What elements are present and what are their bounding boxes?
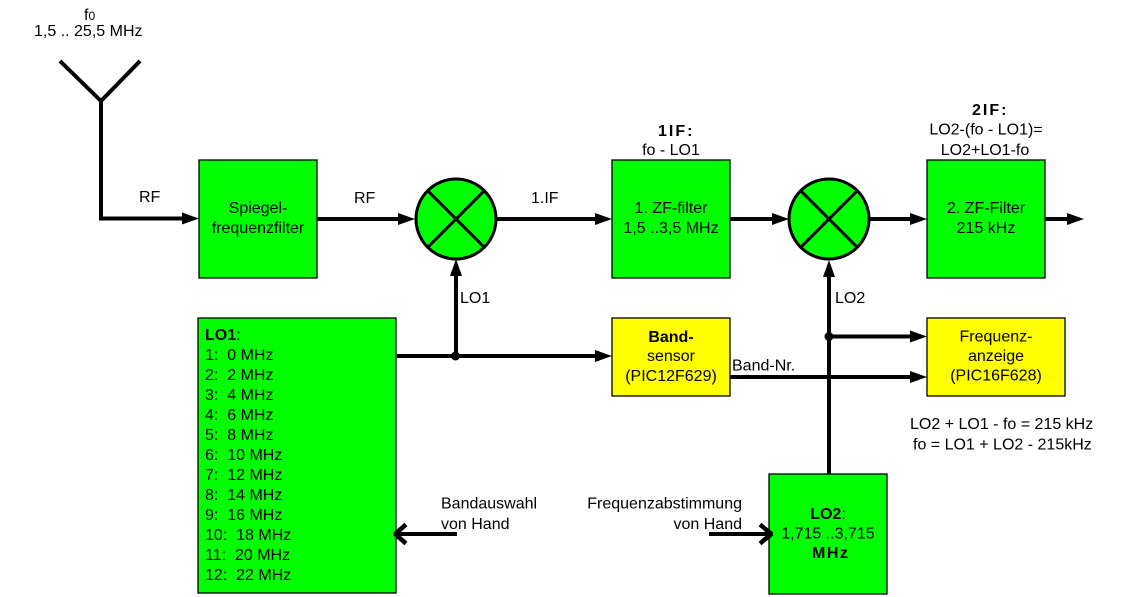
svg-text:1. ZF-filter: 1. ZF-filter (635, 200, 709, 217)
svg-text:LO1: LO1 (460, 290, 490, 307)
svg-text:4: 6 MHz: 4: 6 MHz (205, 407, 273, 424)
svg-text:9: 16 MHz: 9: 16 MHz (205, 507, 282, 524)
svg-text:Bandauswahl: Bandauswahl (441, 496, 537, 513)
wire mixer1 to ZF-filter1 (496, 213, 612, 225)
svg-text:1: 0 MHz: 1: 0 MHz (205, 347, 273, 364)
svg-text:sensor: sensor (647, 348, 696, 365)
sensor Band-sensor (612, 318, 730, 396)
svg-text:Spiegel-: Spiegel- (229, 200, 288, 217)
oscillator LO1 (198, 318, 396, 593)
svg-text:8: 14 MHz: 8: 14 MHz (205, 487, 282, 504)
svg-text:1IF:: 1IF: (658, 123, 694, 140)
svg-text:7: 12 MHz: 7: 12 MHz (205, 467, 282, 484)
svg-text:LO2: LO2 (835, 290, 865, 307)
node fo label (34, 7, 143, 40)
svg-text:5: 8 MHz: 5: 8 MHz (205, 427, 273, 444)
svg-text:von Hand: von Hand (674, 516, 743, 533)
wire Frequenzabstimmung to LO2 (709, 525, 772, 544)
svg-text:LO2+LO1-fo: LO2+LO1-fo (941, 142, 1030, 159)
display Frequenzanzeige (927, 318, 1065, 396)
svg-text:2. ZF-Filter: 2. ZF-Filter (947, 200, 1026, 217)
wire RF antenna to filter (99, 213, 199, 225)
wire mixer2 to ZF-filter2 (869, 213, 927, 225)
antenna (60, 61, 140, 220)
svg-text:frequenzfilter: frequenzfilter (212, 220, 305, 237)
node 2IF heading (929, 102, 1042, 159)
wire Bandauswahl to LO1 (395, 525, 458, 544)
svg-text:LO2 + LO1 - fo = 215 kHz: LO2 + LO1 - fo = 215 kHz (910, 416, 1093, 433)
oscillator LO2 (769, 474, 887, 594)
svg-text:LO2-(fo - LO1)=: LO2-(fo - LO1)= (929, 122, 1042, 139)
wire LO2 to mixer2 (823, 260, 835, 474)
svg-text:12: 22 MHz: 12: 22 MHz (205, 567, 291, 584)
svg-text:(PIC16F628): (PIC16F628) (950, 368, 1042, 385)
svg-text:LO2:: LO2: (810, 506, 846, 523)
wire LO1 to mixer1 (450, 259, 462, 356)
wire ZF-filter2 output (1045, 213, 1084, 225)
svg-text:RF: RF (139, 189, 161, 206)
wire LO1 to band-sensor (397, 350, 612, 362)
svg-text:RF: RF (354, 190, 376, 207)
svg-text:10: 18 MHz: 10: 18 MHz (205, 527, 291, 544)
node junction LO2 (825, 332, 834, 341)
svg-text:f0: f0 (84, 7, 95, 24)
svg-text:1,5 .. 25,5 MHz: 1,5 .. 25,5 MHz (34, 23, 143, 40)
svg-text:6: 10 MHz: 6: 10 MHz (205, 447, 282, 464)
svg-text:fo = LO1 + LO2 - 215kHz: fo = LO1 + LO2 - 215kHz (913, 437, 1092, 454)
svg-text:1.IF: 1.IF (531, 190, 559, 207)
svg-text:Band-: Band- (648, 329, 693, 346)
wire filter to mixer1 (317, 213, 415, 225)
svg-text:anzeige: anzeige (968, 348, 1024, 365)
wire band-sensor to frequenzanzeige (730, 371, 927, 383)
filter ZF2 (927, 160, 1045, 278)
svg-text:11: 20 MHz: 11: 20 MHz (205, 547, 290, 564)
wire junction to frequenzanzeige (829, 331, 927, 343)
svg-text:1,5 ..3,5 MHz: 1,5 ..3,5 MHz (623, 220, 718, 237)
svg-text:(PIC12F629): (PIC12F629) (625, 368, 717, 385)
svg-text:Frequenzabstimmung: Frequenzabstimmung (587, 496, 742, 513)
svg-text:3: 4 MHz: 3: 4 MHz (205, 387, 273, 404)
svg-text:215 kHz: 215 kHz (957, 220, 1016, 237)
node Frequenzabstimmung label (587, 496, 742, 534)
svg-text:Frequenz-: Frequenz- (960, 329, 1033, 346)
node Bandauswahl label (441, 496, 537, 534)
svg-text:LO1:: LO1: (205, 327, 241, 344)
node 1IF heading (642, 123, 700, 159)
svg-text:2IF:: 2IF: (972, 102, 1008, 119)
mixer U2 (789, 179, 869, 259)
node formula text (910, 416, 1093, 454)
node junction LO1 (451, 352, 460, 361)
svg-text:fo - LO1: fo - LO1 (642, 142, 700, 159)
svg-text:2: 2 MHz: 2: 2 MHz (205, 367, 273, 384)
mixer U1 (416, 179, 496, 259)
filter Spiegelfrequenzfilter (199, 160, 317, 278)
wire ZF-filter1 to mixer2 (730, 213, 789, 225)
svg-text:von Hand: von Hand (441, 516, 510, 533)
svg-text:1,715 ..3,715: 1,715 ..3,715 (781, 526, 875, 543)
svg-text:MHz: MHz (812, 545, 849, 562)
filter ZF1 (612, 160, 730, 278)
svg-text:Band-Nr.: Band-Nr. (732, 358, 795, 375)
